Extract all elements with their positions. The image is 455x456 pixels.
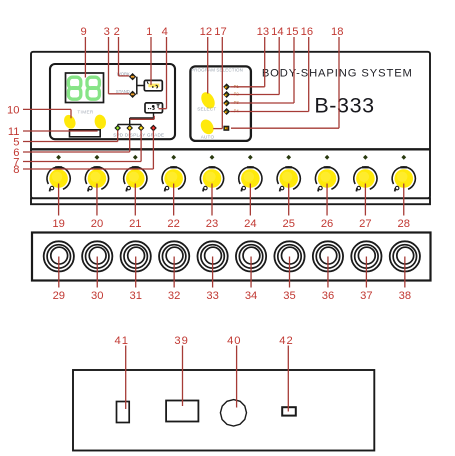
callout 38 number [399,290,411,302]
svg-text:38: 38 [399,290,411,302]
svg-text:34: 34 [245,290,257,302]
callout 8 number [13,164,19,176]
callout 7 leader [23,130,141,161]
knob 21 [124,166,147,191]
svg-text:18: 18 [331,26,343,38]
svg-text:9: 9 [80,26,86,38]
callout 4 leader [159,37,167,109]
callout 26 number [321,218,333,230]
callout 15 number [286,26,298,38]
svg-text:33: 33 [206,290,218,302]
grade LED green [115,125,120,130]
STANDBY label [116,89,130,94]
callout 36 number [322,290,334,302]
callout 23 leader [211,184,213,216]
time set button box U1 [144,80,162,90]
knob 22 [162,166,185,191]
power inlet 39 [166,401,198,422]
callout 40 leader [236,346,238,408]
callout 11 leader [23,130,98,132]
svg-text:B-333: B-333 [314,94,374,118]
svg-text:SPD DISPLAY GRADE: SPD DISPLAY GRADE [113,133,164,138]
timer buttons bracket [70,130,101,137]
PROGRAM SELECTION label [191,68,243,73]
knob 26 [315,166,338,191]
callout 5 leader [23,130,118,141]
callout 16 leader [230,37,309,112]
callout 34 leader [250,257,252,288]
knob indicator diamond 22 [172,155,176,159]
knob 19 [47,166,70,191]
output socket 38 [390,241,420,271]
callout 14 number [271,26,283,38]
callout 15 leader [230,37,294,103]
P4 label [234,109,240,114]
svg-text:2: 2 [114,26,120,38]
svg-text:21: 21 [129,218,141,230]
callout 36 leader [327,257,329,288]
callout 18 leader [231,37,339,128]
callout 10 number [7,104,19,116]
svg-text:40: 40 [227,335,241,347]
WORK LED [130,74,136,80]
svg-text:39: 39 [174,335,188,347]
mode button box U2 [145,103,163,113]
P3 label [234,100,240,105]
callout 13 leader [230,37,265,87]
callout 10 leader [23,109,71,118]
svg-text:28: 28 [398,218,410,230]
output socket 36 [313,241,343,271]
svg-text:25: 25 [282,218,294,230]
callout 16 number [301,26,313,38]
timer sub-panel [50,64,175,139]
callout 21 leader [134,184,136,216]
knob 28 [392,166,415,191]
callout 25 leader [288,184,290,216]
callout 31 number [129,290,141,302]
callout 41 number [114,335,128,347]
svg-text:SELECT: SELECT [197,106,216,111]
LED P2 [224,92,229,97]
ventilation fan 40 [220,400,246,426]
callout 26 leader [326,184,328,216]
B-333 model [314,94,374,118]
wire tree from mode box to grade LEDs [118,113,155,127]
callout 7 number [13,157,19,169]
callout 5 number [13,137,19,149]
callout 14 leader [230,37,279,95]
callout 19 number [52,218,64,230]
svg-text:22: 22 [167,218,179,230]
callout 3 leader [109,37,130,94]
callout 40 number [227,335,241,347]
callout 42 leader [287,346,289,412]
callout 37 leader [365,257,367,288]
BODY-SHAPING SYSTEM title [262,67,413,79]
callout 12 number [200,26,212,38]
callout 32 leader [173,257,175,288]
callout 35 leader [289,257,291,288]
callout 11 number [8,126,20,138]
svg-text:17: 17 [214,26,226,38]
callout 30 number [91,290,103,302]
callout 3 number [104,26,110,38]
svg-text:8: 8 [13,164,19,176]
SELECT label [197,106,216,111]
callout 9 leader [84,37,86,78]
SPD DISPLAY GRADE label [113,133,164,138]
callout 18 number [331,26,343,38]
callout 22 number [167,218,179,230]
callout 24 number [244,218,256,230]
svg-text:32: 32 [168,290,180,302]
callout 37 number [360,290,372,302]
svg-text:35: 35 [283,290,295,302]
TIMER label [77,109,94,114]
callout 17 leader [213,37,222,129]
output socket 32 [159,241,189,271]
svg-text:27: 27 [359,218,371,230]
callout 25 number [282,218,294,230]
callout 6 number [13,147,19,159]
callout 8 leader [23,130,153,169]
svg-text:4: 4 [162,26,168,38]
callout 9 number [80,26,86,38]
svg-text:42: 42 [279,335,293,347]
svg-text:19: 19 [52,218,64,230]
WORK label [117,71,130,76]
callout 12 leader [207,37,209,94]
callout 20 number [91,218,103,230]
top panel outline [31,52,430,199]
callout 13 number [257,26,269,38]
callout 20 leader [96,184,98,216]
output socket 37 [351,241,381,271]
LED P4 [224,109,229,114]
rear panel [73,370,374,451]
callout 34 number [245,290,257,302]
callout 31 leader [135,257,137,288]
power switch 41 [117,402,130,423]
knob indicator diamond 20 [95,155,99,159]
AUTO LED [224,126,229,130]
program sub-panel [190,66,251,140]
callout 1 leader [150,37,152,85]
callout 33 leader [212,257,214,288]
output socket 33 [198,241,228,271]
timer display frame [66,73,104,103]
svg-text:41: 41 [114,335,128,347]
svg-text:23: 23 [206,218,218,230]
svg-text:AUTO: AUTO [201,135,215,140]
svg-text:1: 1 [146,26,152,38]
AUTO label [201,135,215,140]
callout 41 leader [125,346,127,410]
callout 17 number [214,26,226,38]
callout 21 number [129,218,141,230]
knob 24 [239,166,262,191]
callout 27 number [359,218,371,230]
STANDBY LED [130,92,136,98]
svg-text:36: 36 [322,290,334,302]
timer minus button [62,113,78,131]
output socket 30 [82,241,112,271]
knob 25 [277,166,300,191]
output socket 34 [236,241,266,271]
knob 20 [85,166,108,191]
knob 27 [354,166,377,191]
svg-text:14: 14 [271,26,283,38]
callout 24 leader [249,184,251,216]
SELECT button [198,90,217,111]
grade LED yellow 1 [127,125,132,130]
svg-text:PROGRAM SELECTION: PROGRAM SELECTION [191,68,243,73]
callout 42 number [279,335,293,347]
svg-text:12: 12 [200,26,212,38]
knob indicator diamond 21 [133,155,137,159]
output socket 29 [44,241,74,271]
svg-text:16: 16 [301,26,313,38]
callout 27 leader [364,184,366,216]
callout 28 leader [403,184,405,216]
output socket 35 [274,241,304,271]
LED P3 [224,100,229,105]
svg-text:31: 31 [129,290,141,302]
AUTO button [198,117,216,136]
callout 2 leader [119,37,130,76]
P1 label [234,84,240,89]
callout 30 leader [96,257,98,288]
callout 38 leader [404,257,406,288]
knob indicator diamond 28 [402,155,406,159]
svg-text:26: 26 [321,218,333,230]
grade LED yellow 2 [139,125,144,130]
output socket 31 [121,241,151,271]
callout 2 number [114,26,120,38]
svg-text:13: 13 [257,26,269,38]
svg-text:24: 24 [244,218,256,230]
callout 28 number [398,218,410,230]
knob indicator diamond 24 [248,155,252,159]
svg-text:3: 3 [104,26,110,38]
svg-text:BODY-SHAPING SYSTEM: BODY-SHAPING SYSTEM [262,67,413,79]
svg-text:TIMER: TIMER [77,109,94,114]
callout 29 number [53,290,65,302]
callout 19 leader [58,184,60,216]
top panel base strip [31,198,430,204]
svg-text:20: 20 [91,218,103,230]
LED bracket to time button [137,77,145,95]
knob indicator diamond 25 [287,155,291,159]
callout 35 number [283,290,295,302]
callout 1 number [146,26,152,38]
callout 39 number [174,335,188,347]
callout 4 number [162,26,168,38]
svg-text:37: 37 [360,290,372,302]
svg-text:29: 29 [53,290,65,302]
svg-text:30: 30 [91,290,103,302]
callout 22 leader [173,184,175,216]
svg-text:10: 10 [7,104,19,116]
knob indicator diamond 19 [57,155,61,159]
knob indicator diamond 26 [325,155,329,159]
fuse holder 42 [282,407,296,415]
LED P1 [224,84,229,89]
callout 23 number [206,218,218,230]
callout 6 leader [23,130,130,152]
knob indicator diamond 23 [210,155,214,159]
grade LED red [151,125,156,130]
callout 29 leader [58,257,60,288]
timer display digits 88 [68,77,99,99]
callout 33 number [206,290,218,302]
timer plus button [93,114,107,130]
red wire along tree [130,116,155,120]
knob strip divider line [31,148,430,150]
output sockets panel [32,233,431,281]
callout 39 leader [182,346,184,407]
svg-text:15: 15 [286,26,298,38]
P2 label [234,92,240,97]
callout 32 number [168,290,180,302]
knob indicator diamond 27 [364,155,368,159]
knob 23 [200,166,223,191]
